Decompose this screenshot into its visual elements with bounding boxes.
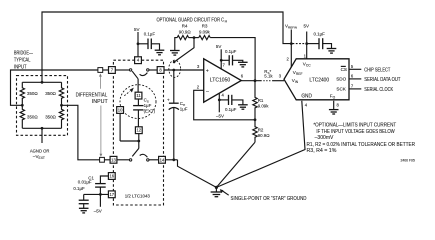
svg-text:H: H xyxy=(225,19,228,23)
svg-text:10: 10 xyxy=(118,108,123,113)
svg-text:INPUT: INPUT xyxy=(92,99,109,105)
svg-text:2400 F05: 2400 F05 xyxy=(401,159,415,163)
svg-text:14: 14 xyxy=(160,157,165,162)
svg-text:+: + xyxy=(167,97,170,102)
svg-text:LTC1050: LTC1050 xyxy=(210,78,231,84)
svg-text:R3: R3 xyxy=(202,23,208,28)
svg-text:12: 12 xyxy=(136,128,141,133)
svg-text:350Ω: 350Ω xyxy=(27,115,38,120)
svg-text:–300mV: –300mV xyxy=(315,135,334,141)
svg-text:TYPICAL: TYPICAL xyxy=(14,58,31,64)
svg-text:CHIP SELECT: CHIP SELECT xyxy=(364,67,391,73)
svg-text:SINGLE-POINT OR “STAR” GROUND: SINGLE-POINT OR “STAR” GROUND xyxy=(231,196,307,202)
svg-text:+: + xyxy=(206,68,209,74)
svg-text:AGND OR: AGND OR xyxy=(30,148,50,153)
svg-text:13: 13 xyxy=(111,157,116,162)
svg-text:GND: GND xyxy=(301,93,312,99)
svg-text:–: – xyxy=(206,88,209,94)
svg-text:350Ω: 350Ω xyxy=(27,91,38,96)
svg-text:SDO: SDO xyxy=(336,77,346,82)
svg-text:9.09k: 9.09k xyxy=(199,29,211,34)
svg-text:–5V: –5V xyxy=(94,208,102,213)
svg-text:1μF: 1μF xyxy=(144,103,152,108)
svg-text:R2: R2 xyxy=(258,127,264,132)
svg-text:5.1k: 5.1k xyxy=(264,74,273,79)
svg-text:5V: 5V xyxy=(304,24,310,29)
svg-text:OPTIONAL GUARD CIRCUIT FOR C: OPTIONAL GUARD CIRCUIT FOR C xyxy=(157,17,225,23)
svg-text:17: 17 xyxy=(109,192,114,197)
svg-text:SERIAL DATA OUT: SERIAL DATA OUT xyxy=(364,77,401,83)
svg-text:–5V: –5V xyxy=(216,114,224,119)
svg-text:0.1μF: 0.1μF xyxy=(225,49,237,54)
svg-text:350Ω: 350Ω xyxy=(45,91,56,96)
svg-text:SCK: SCK xyxy=(336,87,346,92)
svg-text:R1: R1 xyxy=(258,98,264,103)
svg-text:R3, R4 = 1%: R3, R4 = 1% xyxy=(307,148,337,154)
svg-text:0.1μF: 0.1μF xyxy=(314,31,326,36)
svg-text:R4: R4 xyxy=(182,23,188,28)
svg-text:SERIAL CLOCK: SERIAL CLOCK xyxy=(364,87,393,93)
svg-text:11: 11 xyxy=(136,93,141,98)
svg-text:0.1μF: 0.1μF xyxy=(73,186,85,191)
svg-text:IF THE INPUT VOLTAGE GOES BELO: IF THE INPUT VOLTAGE GOES BELOW xyxy=(316,129,395,135)
svg-text:0.1μF: 0.1μF xyxy=(225,107,237,112)
svg-text:LTC2400: LTC2400 xyxy=(309,77,329,83)
svg-text:DIFFERENTIAL: DIFFERENTIAL xyxy=(76,93,108,99)
svg-text:R1, R2 = 0.02% INITIAL TOLERAN: R1, R2 = 0.02% INITIAL TOLERANCE OR BETT… xyxy=(307,142,416,148)
svg-text:1/2 LTC1043: 1/2 LTC1043 xyxy=(125,194,150,200)
svg-text:16: 16 xyxy=(109,174,114,179)
svg-text:90.9Ω: 90.9Ω xyxy=(179,29,192,34)
svg-text:CS: CS xyxy=(341,67,347,72)
svg-text:BRIDGE—: BRIDGE— xyxy=(14,51,33,57)
svg-text:90.9Ω: 90.9Ω xyxy=(258,133,271,138)
svg-text:0.01μF: 0.01μF xyxy=(78,179,92,184)
svg-text:5V: 5V xyxy=(134,27,140,32)
svg-text:5V: 5V xyxy=(216,44,222,49)
svg-text:1μF: 1μF xyxy=(180,107,188,112)
svg-text:9.09k: 9.09k xyxy=(258,103,270,108)
svg-text:350Ω: 350Ω xyxy=(45,115,56,120)
svg-text:*OPTIONAL—LIMITS INPUT CURRENT: *OPTIONAL—LIMITS INPUT CURRENT xyxy=(313,122,396,128)
svg-text:0.1μF: 0.1μF xyxy=(144,32,156,37)
